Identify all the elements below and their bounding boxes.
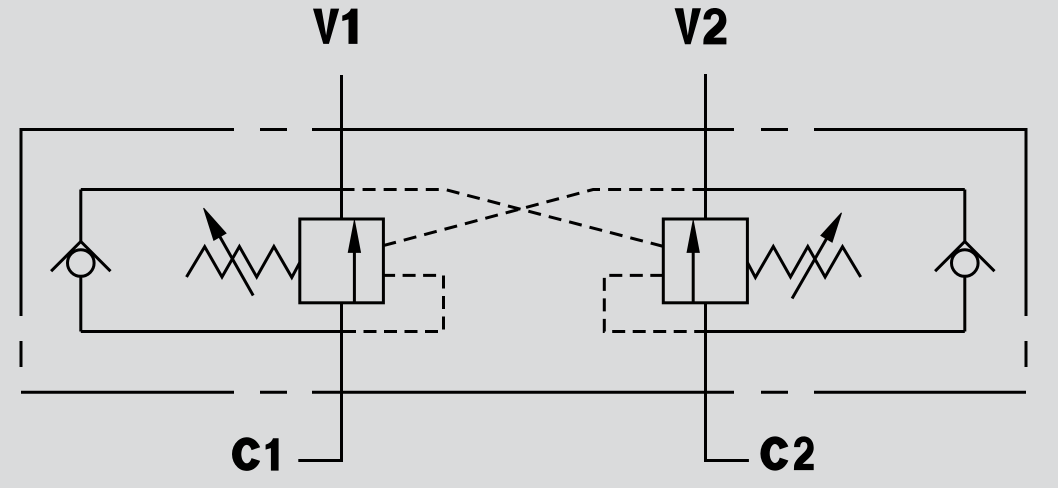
wire: C1 label connector: [298, 459, 343, 462]
label V2 digit 2: [703, 8, 726, 44]
arrowhead of valve 2 flow path: [687, 220, 699, 252]
pilot line from V1 to valve 2 (dashed, crossing): [342, 190, 664, 247]
valve 1 flow path line: [353, 250, 356, 303]
wire: right solid loop right edge upper: [963, 190, 966, 244]
adjustment arrow shaft of valve 2 spring: [792, 239, 826, 299]
arrowhead of valve 1 flow path: [348, 220, 360, 252]
pilot line from V2 to valve 1 (dashed, crossing): [383, 190, 705, 246]
drain line of valve 2 (dashed loop): [604, 275, 704, 331]
label C2 letter C: [760, 436, 788, 470]
check valve CV2 ball: [952, 250, 979, 277]
wire: right solid loop top: [706, 188, 965, 191]
valve 2 flow path line: [692, 250, 695, 303]
check valve CV1 seat: [51, 242, 110, 272]
wire: V1 port line: [340, 75, 343, 461]
arrowhead of valve 1 spring adjuster: [204, 208, 226, 240]
wire: left solid loop left edge lower: [79, 278, 82, 332]
drain line of valve 1 (dashed loop): [343, 275, 444, 331]
wire: left solid loop left edge upper: [79, 190, 82, 244]
adjustment arrow shaft of valve 1 spring: [220, 237, 253, 296]
wire: V2 port line: [704, 74, 707, 461]
label C1 letter C: [232, 437, 260, 471]
outer boundary left edge: [20, 128, 23, 367]
label V1 letter V: [313, 9, 339, 44]
wire: left solid loop top: [81, 188, 342, 191]
outer valve-assembly boundary (chain line) top edge: [21, 128, 1026, 131]
outer boundary bottom edge: [21, 391, 1026, 394]
outer boundary right edge: [1025, 128, 1028, 367]
check valve CV1 ball: [68, 250, 95, 277]
label V1 digit 1: [342, 9, 357, 44]
label C1 digit 1: [266, 438, 279, 470]
counterbalance valve body 2 (right square): [663, 219, 747, 303]
wire: left solid loop bottom: [81, 330, 342, 333]
wire: C2 label connector: [704, 459, 749, 462]
wire: right solid loop right edge lower: [963, 278, 966, 332]
arrowhead of valve 2 spring adjuster: [821, 213, 842, 242]
label V2 letter V: [675, 8, 701, 44]
spring of valve 2 (adjustable): [747, 247, 860, 278]
wire: right solid loop bottom: [706, 330, 965, 333]
check valve CV2 seat: [935, 242, 994, 272]
label C2 digit 2: [794, 436, 814, 470]
counterbalance valve body 1 (left square): [300, 219, 384, 303]
spring of valve 1 (adjustable): [187, 247, 300, 278]
